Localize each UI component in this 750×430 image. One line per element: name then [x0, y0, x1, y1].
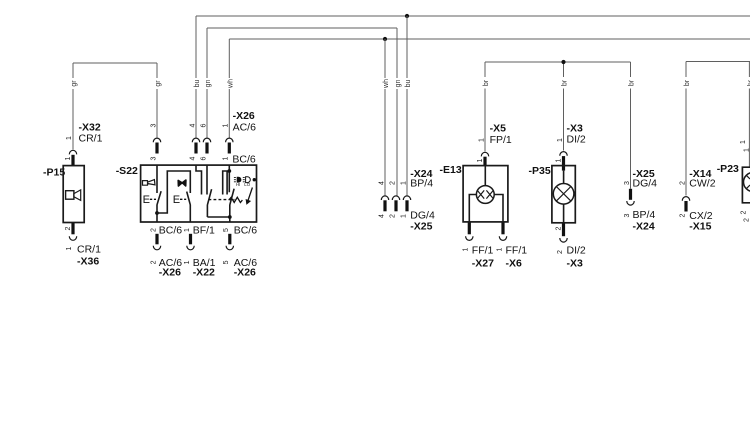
connector DI/2 X3 at P35 bottom [555, 223, 586, 269]
svg-text:br: br [483, 79, 490, 86]
svg-text:2: 2 [557, 250, 564, 254]
connector X32 CR/1 at P15 top [65, 122, 103, 166]
svg-text:3: 3 [624, 213, 631, 217]
wire wh right drop [384, 39, 386, 196]
svg-text:2: 2 [389, 181, 396, 185]
svg-text:wh: wh [383, 79, 390, 89]
node junction bu [405, 14, 409, 18]
svg-text:-X24: -X24 [633, 220, 655, 232]
svg-text:2: 2 [389, 214, 396, 218]
svg-text:-X22: -X22 [193, 267, 215, 279]
lamp P23 clipped [717, 163, 750, 203]
svg-text:LO: LO [244, 182, 250, 187]
svg-text:1: 1 [223, 156, 230, 160]
S22 headlight icon HI [234, 177, 242, 187]
node dot right of icons [253, 178, 256, 181]
connector BC/6 to AC/6 X26 X22 at S22 bottom [150, 224, 257, 278]
svg-text:4: 4 [378, 214, 385, 218]
S22 pole link dashed [209, 199, 235, 201]
svg-text:1: 1 [65, 156, 72, 160]
svg-text:gn: gn [395, 80, 402, 88]
svg-text:bu: bu [405, 80, 412, 88]
svg-text:1: 1 [400, 214, 407, 218]
connector FF/1 X27 and FF/1 X6 at E13 bottom [463, 222, 528, 269]
svg-text:1: 1 [478, 138, 485, 142]
svg-text:DG/4: DG/4 [633, 178, 658, 190]
svg-text:DI/2: DI/2 [567, 244, 586, 256]
svg-text:2: 2 [65, 226, 72, 230]
wire br bracket 1 [485, 62, 631, 189]
svg-text:-X27: -X27 [472, 258, 494, 270]
svg-text:1: 1 [740, 140, 747, 144]
horn P15 [43, 166, 84, 223]
svg-text:gr: gr [71, 80, 78, 87]
connector pins at P23 clipped right edge [740, 140, 750, 222]
node junction wh [383, 37, 387, 41]
svg-text:2: 2 [150, 260, 157, 264]
svg-text:CW/2: CW/2 [689, 178, 715, 190]
S22 dimmer pole 1 [207, 189, 211, 217]
svg-text:-X26: -X26 [234, 267, 256, 279]
svg-text:1: 1 [66, 246, 73, 250]
svg-text:FF/1: FF/1 [506, 244, 528, 256]
svg-text:bu: bu [194, 80, 201, 88]
S22 dimmer pole 2 [230, 189, 234, 217]
svg-text:E: E [143, 194, 150, 206]
svg-text:1: 1 [400, 181, 407, 185]
svg-text:6: 6 [200, 156, 207, 160]
svg-text:2: 2 [555, 226, 562, 230]
svg-text:3: 3 [150, 156, 157, 160]
svg-text:DI/2: DI/2 [567, 133, 586, 145]
wire bus gn [207, 28, 397, 138]
svg-text:HI: HI [236, 182, 240, 187]
svg-text:1: 1 [223, 123, 230, 127]
svg-text:wh: wh [228, 79, 235, 89]
svg-text:-X6: -X6 [506, 258, 523, 270]
lamp P35 [529, 165, 576, 223]
svg-text:br: br [629, 79, 636, 86]
wire br bracket 2 [686, 62, 750, 196]
S22 flasher icon [178, 180, 186, 186]
svg-text:br: br [684, 79, 691, 86]
svg-text:1: 1 [557, 138, 564, 142]
S22 dimmer feed wh hairpin [223, 165, 232, 194]
svg-text:BF/1: BF/1 [193, 224, 215, 236]
svg-text:1: 1 [184, 228, 191, 232]
wire bu right drop [406, 16, 408, 196]
node junction br [561, 60, 565, 64]
connector X25 DG/4 to BP/4 X24 right single [624, 168, 657, 232]
S22 horn icon [143, 180, 156, 186]
svg-text:2: 2 [150, 228, 157, 232]
switch unit S22 [116, 165, 257, 222]
svg-text:BC/6: BC/6 [159, 224, 183, 236]
svg-text:FP/1: FP/1 [490, 134, 512, 146]
svg-text:2: 2 [744, 218, 750, 222]
svg-text:-X26: -X26 [233, 110, 255, 122]
svg-text:-P35: -P35 [529, 165, 551, 177]
wire S22 internal link [157, 171, 190, 213]
wire br stub P23 [748, 62, 750, 168]
svg-text:1: 1 [463, 247, 470, 251]
svg-text:4: 4 [189, 123, 196, 127]
connector X36 CR/1 at P15 bottom [65, 223, 101, 268]
svg-text:-P23: -P23 [717, 163, 739, 175]
svg-text:-X26: -X26 [159, 267, 181, 279]
svg-text:4: 4 [378, 181, 385, 185]
S22 headlight icon LO [243, 177, 251, 187]
svg-text:BP/4: BP/4 [410, 178, 433, 190]
svg-text:-X15: -X15 [689, 220, 711, 232]
svg-text:-X25: -X25 [410, 220, 432, 232]
svg-text:1: 1 [66, 136, 73, 140]
connector X24 BP/4 to DG/4 X25 inline trio [378, 168, 435, 232]
connector X14 CW/2 to CX/2 X15 [679, 168, 715, 232]
svg-text:2: 2 [679, 181, 686, 185]
svg-text:br: br [562, 79, 569, 86]
wire gn right drop [396, 28, 398, 196]
svg-text:1: 1 [555, 158, 562, 162]
svg-text:1: 1 [477, 158, 484, 162]
svg-text:4: 4 [189, 156, 196, 160]
svg-text:BP/4: BP/4 [633, 209, 656, 221]
wire gr net P15 to S22 [73, 63, 157, 150]
svg-text:BC/6: BC/6 [234, 224, 258, 236]
svg-text:5: 5 [223, 228, 230, 232]
svg-text:-S22: -S22 [116, 165, 138, 177]
S22 flash switch contact [173, 192, 191, 222]
svg-text:2: 2 [741, 210, 748, 214]
connector X26 AC/6 to BC/6 at S22 top [150, 110, 256, 165]
svg-text:-X5: -X5 [490, 123, 507, 135]
svg-text:CR/1: CR/1 [77, 243, 101, 255]
svg-text:1: 1 [744, 148, 750, 152]
svg-text:CR/1: CR/1 [79, 132, 103, 144]
svg-text:FF/1: FF/1 [472, 244, 494, 256]
svg-text:AC/6: AC/6 [233, 122, 257, 134]
svg-text:6: 6 [200, 123, 207, 127]
svg-text:5: 5 [223, 260, 230, 264]
connector X5 FP/1 at E13 top [477, 123, 512, 166]
S22 dimmer contacts bu gn [196, 165, 207, 194]
svg-text:-P15: -P15 [43, 167, 65, 179]
svg-text:3: 3 [150, 123, 157, 127]
wire bus wh [229, 39, 750, 138]
S22 spring return symbol [229, 188, 253, 204]
connector X3 DI/2 at P35 top [555, 123, 586, 171]
svg-text:-E13: -E13 [440, 164, 462, 176]
svg-text:gn: gn [205, 80, 212, 88]
svg-text:2: 2 [679, 213, 686, 217]
svg-text:3: 3 [624, 181, 631, 185]
svg-text:1: 1 [496, 247, 503, 251]
S22 horn switch contact [143, 166, 162, 223]
wire S22 output link to pin 5 [207, 215, 231, 222]
svg-text:BC/6: BC/6 [232, 153, 256, 165]
svg-text:-X36: -X36 [77, 256, 99, 268]
svg-text:E: E [173, 194, 180, 206]
svg-text:gr: gr [155, 80, 162, 87]
wire bus bu top [196, 16, 750, 138]
svg-text:1: 1 [184, 260, 191, 264]
svg-text:-X3: -X3 [567, 258, 584, 270]
lamp E13 [440, 164, 508, 222]
